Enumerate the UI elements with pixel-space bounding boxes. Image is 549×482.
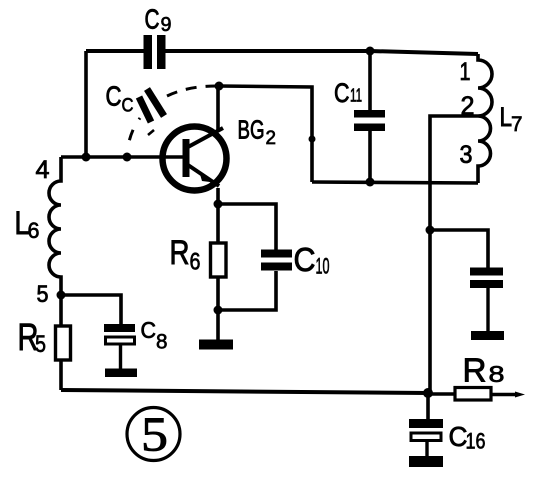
svg-text:5: 5 <box>37 281 49 308</box>
svg-text:8: 8 <box>156 331 168 354</box>
svg-text:9: 9 <box>161 14 172 36</box>
svg-text:C: C <box>294 241 316 278</box>
node: bottom rail junction <box>423 388 433 398</box>
node: collector node <box>215 82 224 91</box>
svg-text:C: C <box>334 78 350 108</box>
svg-text:C: C <box>141 317 157 343</box>
wire: R6 bottom to junction <box>216 277 220 310</box>
wire: bottom rail <box>61 390 428 393</box>
transistor BG2 <box>163 115 277 191</box>
wire: emitter junction right to C10 <box>218 204 276 250</box>
capacitor CC (dashed feedback path) <box>106 81 217 153</box>
resistor R5 <box>18 317 71 360</box>
wire: tank bottom rail <box>312 182 478 183</box>
svg-text:10: 10 <box>316 254 330 279</box>
svg-text:C: C <box>106 81 122 112</box>
ground below C8 <box>105 369 137 378</box>
wire: node 5 down to R5 <box>59 295 63 326</box>
resistor R8 <box>455 352 505 401</box>
svg-text:2: 2 <box>266 128 277 149</box>
svg-text:11: 11 <box>350 86 362 106</box>
node: small blob on vertical wire <box>309 136 316 143</box>
svg-text:C: C <box>145 4 160 35</box>
svg-text:BG: BG <box>238 115 265 145</box>
wire: emitter down <box>216 188 220 204</box>
svg-text:R: R <box>170 234 190 272</box>
capacitor C16 (electrolytic) <box>409 393 486 457</box>
wire: node 5 to C8 <box>61 295 121 324</box>
svg-text:5: 5 <box>35 331 46 358</box>
wire: junction to R8 <box>428 392 455 396</box>
wire: top rail left of C9 <box>86 49 144 53</box>
wire: junction right to capacitor <box>430 230 488 268</box>
wire: collector up <box>216 86 220 130</box>
wire: left vertical from top rail to base rail <box>84 51 88 157</box>
svg-text:4: 4 <box>36 156 50 184</box>
resistor R6 <box>170 234 227 277</box>
svg-text:C: C <box>122 96 134 117</box>
node: tap line junction to right capacitor <box>426 226 435 235</box>
inductor L7 <box>460 54 523 183</box>
wire: R8 right with arrow end <box>491 393 518 396</box>
svg-text:7: 7 <box>511 113 523 136</box>
wire: junction down to ground <box>216 310 220 341</box>
wire: R5 bottom to bottom rail <box>59 360 63 390</box>
svg-text:3: 3 <box>460 141 473 169</box>
capacitor C9 <box>144 4 172 70</box>
wire: tap 2 left and down <box>430 116 478 393</box>
capacitor C8 (electrolytic) <box>104 317 168 369</box>
ground below C16 <box>409 456 443 467</box>
node: junction top rail / C11 <box>366 47 375 56</box>
node: node 5 <box>57 291 66 300</box>
capacitor C11 <box>334 51 385 182</box>
svg-text:1: 1 <box>460 58 471 86</box>
ground below right capacitor <box>471 331 504 340</box>
capacitor C10 <box>261 241 330 279</box>
svg-text:6: 6 <box>28 218 40 243</box>
svg-text:5: 5 <box>141 407 168 462</box>
inductor L6 <box>15 156 62 308</box>
wire: emitter junction down to R6 <box>216 204 220 243</box>
figure number 5 <box>127 407 180 462</box>
wire: top rail from C9 to L7 top corner <box>165 51 478 54</box>
wire: junction right to C10 bottom <box>218 271 276 310</box>
svg-text:16: 16 <box>466 429 486 454</box>
capacitor (unlabeled right) <box>470 268 503 332</box>
svg-text:6: 6 <box>190 249 201 276</box>
node: emitter junction <box>214 200 223 209</box>
wire: base rail <box>61 155 186 159</box>
node: junction C9 branch on base rail <box>82 153 91 162</box>
ground below R6 <box>199 340 233 350</box>
svg-text:8: 8 <box>489 361 505 387</box>
node: C11 bottom junction <box>366 178 375 187</box>
svg-text:R: R <box>463 352 487 389</box>
wire: collector rail right and down to tank bottom <box>219 86 312 182</box>
node: junction dashed-arc start on base rail <box>123 153 132 162</box>
node: R6/C10 bottom junction <box>214 306 223 315</box>
